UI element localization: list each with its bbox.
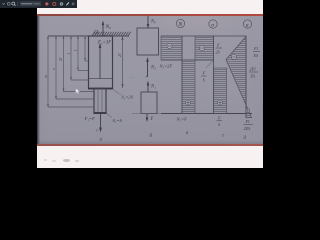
S1=S leader (107, 114, 113, 118)
svg-text:=2S: =2S (128, 75, 135, 80)
filename pill (20, 1, 42, 6)
svg-text:l: l (66, 52, 71, 54)
F/S fraction (below baseline) (217, 116, 221, 128)
svg-text:S₁=S: S₁=S (113, 118, 123, 123)
force F1 arrow (down) (100, 113, 102, 131)
gear icon (60, 2, 63, 5)
svg-text:в: в (186, 131, 189, 136)
F/2S fraction (top right of axis) (216, 43, 221, 55)
svg-text:σ: σ (211, 22, 214, 28)
photo (scan) (37, 16, 263, 145)
red line top (37, 14, 263, 16)
minus sign u (231, 54, 236, 59)
plus sign N (185, 100, 190, 105)
sigma bottom block (positive) (214, 68, 227, 114)
u triangle upper (negative) (226, 37, 246, 106)
leader to F/S (206, 61, 213, 69)
Fl/ES fraction (253, 46, 260, 58)
svg-text:N₁: N₁ (150, 85, 156, 90)
separator (17, 1, 19, 6)
svg-text:l: l (73, 49, 78, 51)
rotate icon (7, 2, 10, 5)
N top block (negative) (161, 36, 182, 60)
faint smudges bottom strip (44, 159, 47, 161)
mouse cursor (76, 88, 81, 95)
N1 arrow up (147, 82, 149, 92)
svg-text:2ES: 2ES (244, 126, 252, 131)
svg-text:F₁=F: F₁=F (84, 116, 96, 121)
svg-text:2S: 2S (216, 50, 221, 55)
u axis (245, 36, 247, 118)
minus sign N (167, 43, 172, 48)
wide bar segment (89, 36, 113, 89)
Fl/2ES fraction (244, 119, 252, 131)
svg-text:б: б (150, 134, 153, 139)
svg-text:S₂=2S: S₂=2S (122, 95, 134, 100)
step line (bottom of wide bar) (88, 88, 113, 90)
right black column (263, 0, 301, 168)
svg-text:S: S (218, 122, 221, 127)
circled u header (243, 20, 251, 28)
svg-text:а: а (100, 138, 103, 143)
minus sign sigma (199, 45, 204, 50)
svg-text:2l: 2l (117, 53, 122, 57)
dim icon (72, 3, 75, 6)
red line bottom (37, 144, 263, 146)
svg-text:д: д (244, 136, 247, 141)
svg-text:w: w (43, 75, 48, 78)
narrow bar segment (94, 89, 106, 114)
red record dot (45, 2, 49, 6)
2l dimension line right of bar (122, 36, 124, 88)
ceiling support line (48, 35, 129, 37)
svg-text:N₂: N₂ (150, 66, 156, 71)
plus sign u (small) (246, 109, 250, 113)
svg-text:N₂=2F: N₂=2F (159, 64, 173, 69)
svg-text:N₀: N₀ (150, 20, 156, 25)
svg-text:x: x (145, 74, 148, 79)
magnifier icon (12, 2, 15, 5)
svg-text:г: г (222, 134, 224, 139)
toolbar (0, 0, 77, 8)
reaction N0 arrow (102, 22, 104, 36)
svg-text:ES: ES (253, 53, 260, 58)
left black column (0, 0, 37, 168)
svg-text:ES: ES (250, 74, 257, 79)
N bottom block (positive) (182, 60, 195, 114)
sigma axis (213, 36, 215, 114)
red ring icon (53, 2, 56, 5)
svg-text:O: O (94, 30, 99, 36)
N0 arrow down into upper element (147, 16, 149, 29)
2Fl/ES fraction (250, 67, 257, 79)
inner rod lines in narrow bar (97, 89, 99, 114)
N divider (161, 59, 195, 61)
narrow bar bottom thick (94, 112, 107, 114)
upper element square (137, 28, 159, 55)
S2=2S leader (113, 90, 121, 96)
diagram svg placed over photo (37, 15, 263, 145)
N2 arrow up (147, 59, 149, 78)
sigma divider (195, 59, 214, 61)
sigma top block (negative) (195, 36, 214, 60)
svg-text:F₂=3F: F₂=3F (97, 41, 111, 46)
u triangle lower (positive tip) (246, 105, 252, 118)
photo left edge shadow (37, 16, 40, 145)
svg-text:Fl: Fl (245, 119, 251, 124)
svg-text:Fl: Fl (253, 46, 259, 51)
svg-text:x: x (95, 128, 98, 133)
F/S fraction (left, mid) (202, 71, 206, 83)
svg-text:F: F (217, 116, 221, 121)
F arrow down (146, 114, 148, 121)
lower element square (141, 92, 157, 114)
left dimension ladder (48, 36, 94, 107)
force F2 arrow (up) (99, 44, 101, 79)
section line in wide bar (89, 78, 113, 80)
N axis (181, 36, 183, 114)
circled N header (176, 19, 184, 27)
rotated dim labels (43, 49, 78, 78)
svg-text:2Fl: 2Fl (250, 67, 257, 72)
svg-text:F: F (202, 71, 206, 76)
ceiling hatching (92, 32, 131, 36)
svg-text:2l: 2l (58, 57, 63, 61)
plus sign sigma (217, 100, 222, 105)
svg-text:S: S (203, 78, 206, 83)
svg-text:u: u (246, 22, 249, 28)
common baseline (132, 113, 161, 115)
svg-text:F: F (216, 43, 220, 48)
pencil icon (66, 2, 69, 5)
svg-text:F: F (150, 117, 154, 122)
white page background (37, 0, 263, 168)
svg-text:N₁=F: N₁=F (176, 117, 188, 122)
circled sigma header (209, 20, 217, 28)
svg-text:N₀: N₀ (105, 24, 112, 30)
svg-text:v: v (51, 68, 56, 70)
back chevron icon (2, 3, 4, 4)
